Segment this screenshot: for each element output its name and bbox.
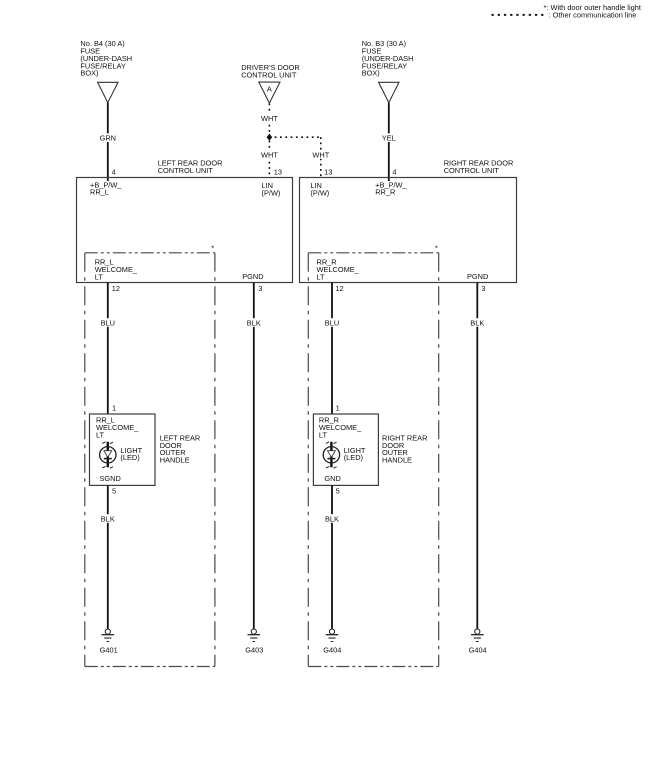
- svg-text:GND: GND: [324, 474, 340, 483]
- left rear door control unit label: [158, 159, 223, 175]
- pin 3 (right control unit): [481, 284, 485, 293]
- svg-text:5: 5: [336, 487, 340, 496]
- pin 4 (left control unit): [112, 168, 116, 177]
- svg-text:(P/W): (P/W): [262, 188, 281, 197]
- wire WHT (dotted, from connector A down): [260, 104, 280, 178]
- legend: other communication line sample: [492, 11, 637, 20]
- node GND (RH welcome light): [324, 474, 340, 483]
- wire BLU: right control unit pin 12 to RH welcome light pin 1: [323, 283, 342, 416]
- svg-text:LT: LT: [96, 430, 105, 439]
- RH welcome light unit box: [313, 414, 378, 485]
- wire BLK: left control unit pin 3 to G403: [245, 283, 264, 630]
- svg-text:RR_R: RR_R: [375, 188, 395, 197]
- svg-text:BLK: BLK: [325, 514, 339, 523]
- node PGND (left control unit): [242, 272, 263, 281]
- svg-text:PGND: PGND: [242, 272, 263, 281]
- node SGND (LH welcome light): [100, 474, 121, 483]
- node PGND (right control unit): [467, 272, 488, 281]
- svg-text:BLK: BLK: [247, 318, 261, 327]
- wire BLK: LH welcome light pin 5 to G401: [99, 485, 118, 629]
- svg-text:13: 13: [324, 168, 332, 177]
- option dash-dot box (left, with door outer handle light): [85, 253, 215, 667]
- ground G404 (right control unit PGND): [469, 629, 487, 654]
- wire BLU: left control unit pin 12 to LH welcome light pin 1: [99, 283, 118, 416]
- fuse B3 label: [362, 39, 414, 78]
- node +B_P/W_RR_R (right): [375, 180, 407, 196]
- node RR_L WELCOME_LT (left control unit): [95, 258, 138, 282]
- svg-text:GRN: GRN: [100, 134, 116, 143]
- pin 4 (right control unit): [392, 168, 396, 177]
- svg-text:12: 12: [335, 284, 343, 293]
- LED D2 (RH welcome light): [323, 442, 339, 469]
- wire BLK: right control unit pin 3 to G404: [468, 283, 487, 630]
- svg-text:BOX): BOX): [362, 69, 380, 78]
- right rear door control unit U-R: [300, 178, 517, 283]
- wire WHT branch (dotted, to right control unit pin 13): [269, 137, 331, 177]
- pin 5 (RH welcome light): [336, 487, 340, 496]
- ground G404 (RH welcome light): [323, 629, 341, 654]
- legend note: with door outer handle light: [544, 3, 641, 12]
- svg-text:*: *: [435, 244, 438, 253]
- svg-text:BOX): BOX): [80, 69, 98, 78]
- pin 12 (right control unit): [335, 284, 343, 293]
- right rear door control unit label: [444, 159, 514, 175]
- fuse B4 label: [80, 39, 132, 78]
- svg-text:*: *: [211, 244, 214, 253]
- svg-text:G403: G403: [245, 645, 263, 654]
- pin 13 (left control unit): [274, 168, 282, 177]
- svg-text:4: 4: [392, 168, 396, 177]
- svg-text:SGND: SGND: [100, 474, 121, 483]
- svg-text:WHT: WHT: [261, 150, 278, 159]
- pin 13 (right control unit): [324, 168, 332, 177]
- svg-text:YEL: YEL: [382, 134, 396, 143]
- driver's door control unit label: [241, 63, 300, 79]
- svg-text:LT: LT: [317, 273, 326, 282]
- pin 5 (LH welcome light): [112, 487, 116, 496]
- svg-text:PGND: PGND: [467, 272, 488, 281]
- svg-text:BLK: BLK: [101, 514, 115, 523]
- svg-text:WHT: WHT: [261, 114, 278, 123]
- node RR_L WELCOME_LT (LH welcome light): [96, 416, 139, 440]
- svg-text:(P/W): (P/W): [310, 188, 329, 197]
- node RR_R WELCOME_LT (right control unit): [317, 258, 360, 282]
- label RH welcome light: RIGHT REAR DOOR OUTER HANDLE: [382, 433, 427, 464]
- svg-text:CONTROL UNIT: CONTROL UNIT: [241, 71, 297, 80]
- svg-text:1: 1: [336, 404, 340, 413]
- node +B_P/W_RR_L (left): [90, 180, 122, 196]
- svg-text:3: 3: [258, 284, 262, 293]
- svg-text:BLK: BLK: [470, 318, 484, 327]
- node RR_R WELCOME_LT (RH welcome light): [319, 416, 362, 440]
- node LIN (P/W) (left): [262, 181, 281, 197]
- svg-text:1: 1: [112, 404, 116, 413]
- fuse B3: [379, 82, 399, 102]
- connector A (driver's door control unit): [259, 82, 280, 103]
- pin 1 (RH welcome light): [336, 404, 340, 413]
- svg-text:13: 13: [274, 168, 282, 177]
- svg-text:HANDLE: HANDLE: [382, 456, 412, 465]
- ground G401: [100, 629, 118, 654]
- svg-text:: Other communication line: : Other communication line: [549, 11, 637, 20]
- svg-text:G404: G404: [469, 645, 487, 654]
- svg-text:LT: LT: [319, 430, 328, 439]
- LED D1 (LH welcome light): [100, 442, 116, 469]
- svg-text:BLU: BLU: [325, 318, 339, 327]
- label LH welcome light: LEFT REAR DOOR OUTER HANDLE: [160, 433, 201, 464]
- label LIGHT (LED) (LH): [120, 446, 142, 462]
- ground G403: [245, 629, 263, 654]
- svg-text:WHT: WHT: [312, 150, 329, 159]
- wire YEL: fuse B3 to right control unit pin 4: [380, 103, 399, 181]
- svg-text:LT: LT: [95, 273, 104, 282]
- svg-text:BLU: BLU: [101, 318, 115, 327]
- svg-text:G404: G404: [323, 645, 341, 654]
- wire GRN: fuse B4 to left control unit pin 4: [98, 103, 118, 181]
- svg-text:CONTROL UNIT: CONTROL UNIT: [444, 166, 500, 175]
- pin 1 (LH welcome light): [112, 404, 116, 413]
- junction node on WHT line: [267, 134, 273, 141]
- pin 3 (left control unit): [258, 284, 262, 293]
- fuse B4: [98, 82, 118, 102]
- svg-text:3: 3: [481, 284, 485, 293]
- asterisk marker (right option box): [435, 244, 438, 253]
- asterisk marker (left option box): [211, 244, 214, 253]
- svg-text:5: 5: [112, 487, 116, 496]
- pin 12 (left control unit): [112, 284, 120, 293]
- LH welcome light unit box: [90, 414, 156, 485]
- svg-text:4: 4: [112, 168, 116, 177]
- node LIN (P/W) (right): [310, 181, 329, 197]
- label LIGHT (LED) (RH): [344, 446, 366, 462]
- option dash-dot box (right, with door outer handle light): [308, 253, 438, 667]
- svg-text:(LED): (LED): [120, 453, 139, 462]
- svg-text:G401: G401: [100, 645, 118, 654]
- left rear door control unit U-L: [77, 178, 293, 283]
- svg-text:(LED): (LED): [344, 453, 363, 462]
- svg-text:A: A: [267, 85, 272, 94]
- svg-text:HANDLE: HANDLE: [160, 456, 190, 465]
- wire BLK: RH welcome light pin 5 to G404: [323, 485, 342, 629]
- svg-text:CONTROL UNIT: CONTROL UNIT: [158, 166, 214, 175]
- svg-text:12: 12: [112, 284, 120, 293]
- svg-text:RR_L: RR_L: [90, 188, 109, 197]
